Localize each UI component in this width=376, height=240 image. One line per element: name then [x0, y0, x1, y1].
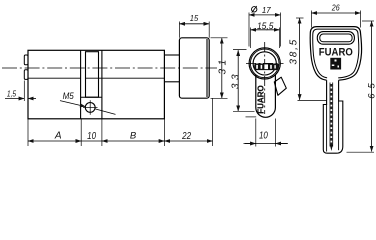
cylinder body profile (front view): [256, 75, 276, 118]
key hole slot outer: [317, 32, 354, 45]
cam gap left edge: [80, 50, 82, 119]
M5 leader tail: [95, 109, 116, 115]
cylinder body (side view): [28, 50, 164, 119]
neck bottom line: [164, 81, 179, 83]
blade left inner line: [326, 105, 328, 152]
dimension 65 bottom extension: [347, 151, 375, 153]
dimension 1,5 left arrow: [5, 98, 24, 100]
cam lobe (front view): [274, 77, 286, 95]
dim 10 right arrow: [275, 143, 287, 145]
blade right inner line: [338, 101, 340, 150]
svg-text:B: B: [130, 130, 137, 141]
dimension 1,5 right arrow: [28, 98, 36, 100]
chain arrow at A/10 division: [76, 140, 81, 142]
svg-text:15: 15: [190, 13, 199, 23]
svg-text:15,5: 15,5: [257, 21, 274, 31]
blade groove right edge: [332, 83, 334, 147]
dimension 15,5 extension lines: [251, 28, 280, 49]
blade groove left edge: [329, 83, 331, 147]
M5 screw hole: [85, 103, 95, 113]
svg-text:FUARO: FUARO: [319, 47, 353, 59]
dimension 15,5 line: [251, 29, 280, 31]
plug separation line: [28, 77, 164, 79]
knob face chamfer line: [206, 39, 208, 97]
dimension 15 line: [179, 23, 209, 25]
body bottom tangent extension: [246, 116, 257, 118]
thumbturn knob: [179, 38, 209, 98]
dimension 33 extension lines: [233, 50, 255, 112]
neck top line: [164, 54, 179, 56]
cylinder face outer circle: [249, 48, 280, 79]
dimension 15 extension lines: [179, 22, 209, 38]
dimension 10 (front) extension lines: [256, 119, 276, 147]
plug circle: [253, 52, 276, 75]
tailpiece lower lug: [24, 70, 28, 80]
blade groove milling dashes: [330, 84, 332, 146]
bottom chain dimension line: [28, 140, 213, 142]
chain arrow at right end: [208, 140, 213, 142]
svg-text:38,5: 38,5: [289, 38, 300, 65]
dimension 10 (front) line: [244, 143, 289, 145]
svg-text:17: 17: [262, 5, 271, 15]
dimension 26 line: [311, 12, 360, 14]
FUARO logo square on key: [330, 58, 341, 70]
cylinder face chamfer circle: [250, 49, 279, 78]
front view vertical centerline: [264, 42, 266, 114]
dimension 33 line: [237, 50, 239, 111]
dimension 65 line: [371, 21, 373, 152]
centerline of cylinder axis (side view): [2, 67, 217, 69]
chain arrow at left end: [28, 140, 33, 142]
svg-text:10: 10: [87, 130, 96, 142]
dimension 26 extension lines: [311, 11, 360, 28]
svg-text:M5: M5: [63, 91, 75, 102]
chain arrow at 10/B division: [102, 140, 107, 142]
key head inner outline: [313, 29, 359, 78]
dimension D17 line: [249, 14, 281, 16]
keyway profile slits: [256, 64, 276, 69]
svg-text:1,5: 1,5: [7, 88, 16, 98]
key hole slot inner: [320, 34, 352, 42]
svg-text:26: 26: [331, 3, 340, 12]
M5 leader line: [60, 101, 86, 107]
svg-text:33: 33: [231, 71, 242, 89]
bottom chain dimension extension lines: [28, 98, 213, 146]
dimension 38,5 top tick: [296, 17, 304, 19]
blade groove tip: [330, 145, 333, 152]
dimension 1,5 extension line: [23, 81, 25, 102]
key blade outline: [323, 80, 343, 153]
dimension 31 line: [221, 38, 223, 98]
dimension 38,5 bottom extension: [298, 100, 328, 102]
svg-text:A: A: [54, 131, 62, 142]
dimension D17 extension lines: [249, 13, 281, 47]
diameter symbol of D17 label: [252, 7, 257, 12]
cam bottom line across gap: [81, 96, 102, 98]
dim 10 left arrow: [245, 143, 256, 145]
key head outer outline: [310, 27, 361, 81]
chain arrows at B/22 division: [159, 140, 164, 142]
front view horizontal centerline: [246, 62, 284, 64]
svg-text:31: 31: [217, 56, 228, 74]
screw hole horizontal centerline: [83, 106, 98, 108]
svg-text:10: 10: [259, 130, 268, 142]
tailpiece upper lug: [24, 55, 28, 65]
svg-text:FUARO: FUARO: [256, 85, 266, 114]
svg-text:22: 22: [181, 130, 191, 142]
svg-text:65: 65: [366, 78, 376, 99]
dimension 38,5 line: [299, 18, 301, 100]
screw hole vertical centerline: [89, 100, 91, 115]
cam (side view): [86, 52, 99, 97]
cam gap right edge: [101, 50, 103, 119]
dimension 65 top extension: [362, 20, 374, 22]
dimension 31 extension lines: [211, 38, 228, 99]
keyway slot: [254, 64, 279, 71]
